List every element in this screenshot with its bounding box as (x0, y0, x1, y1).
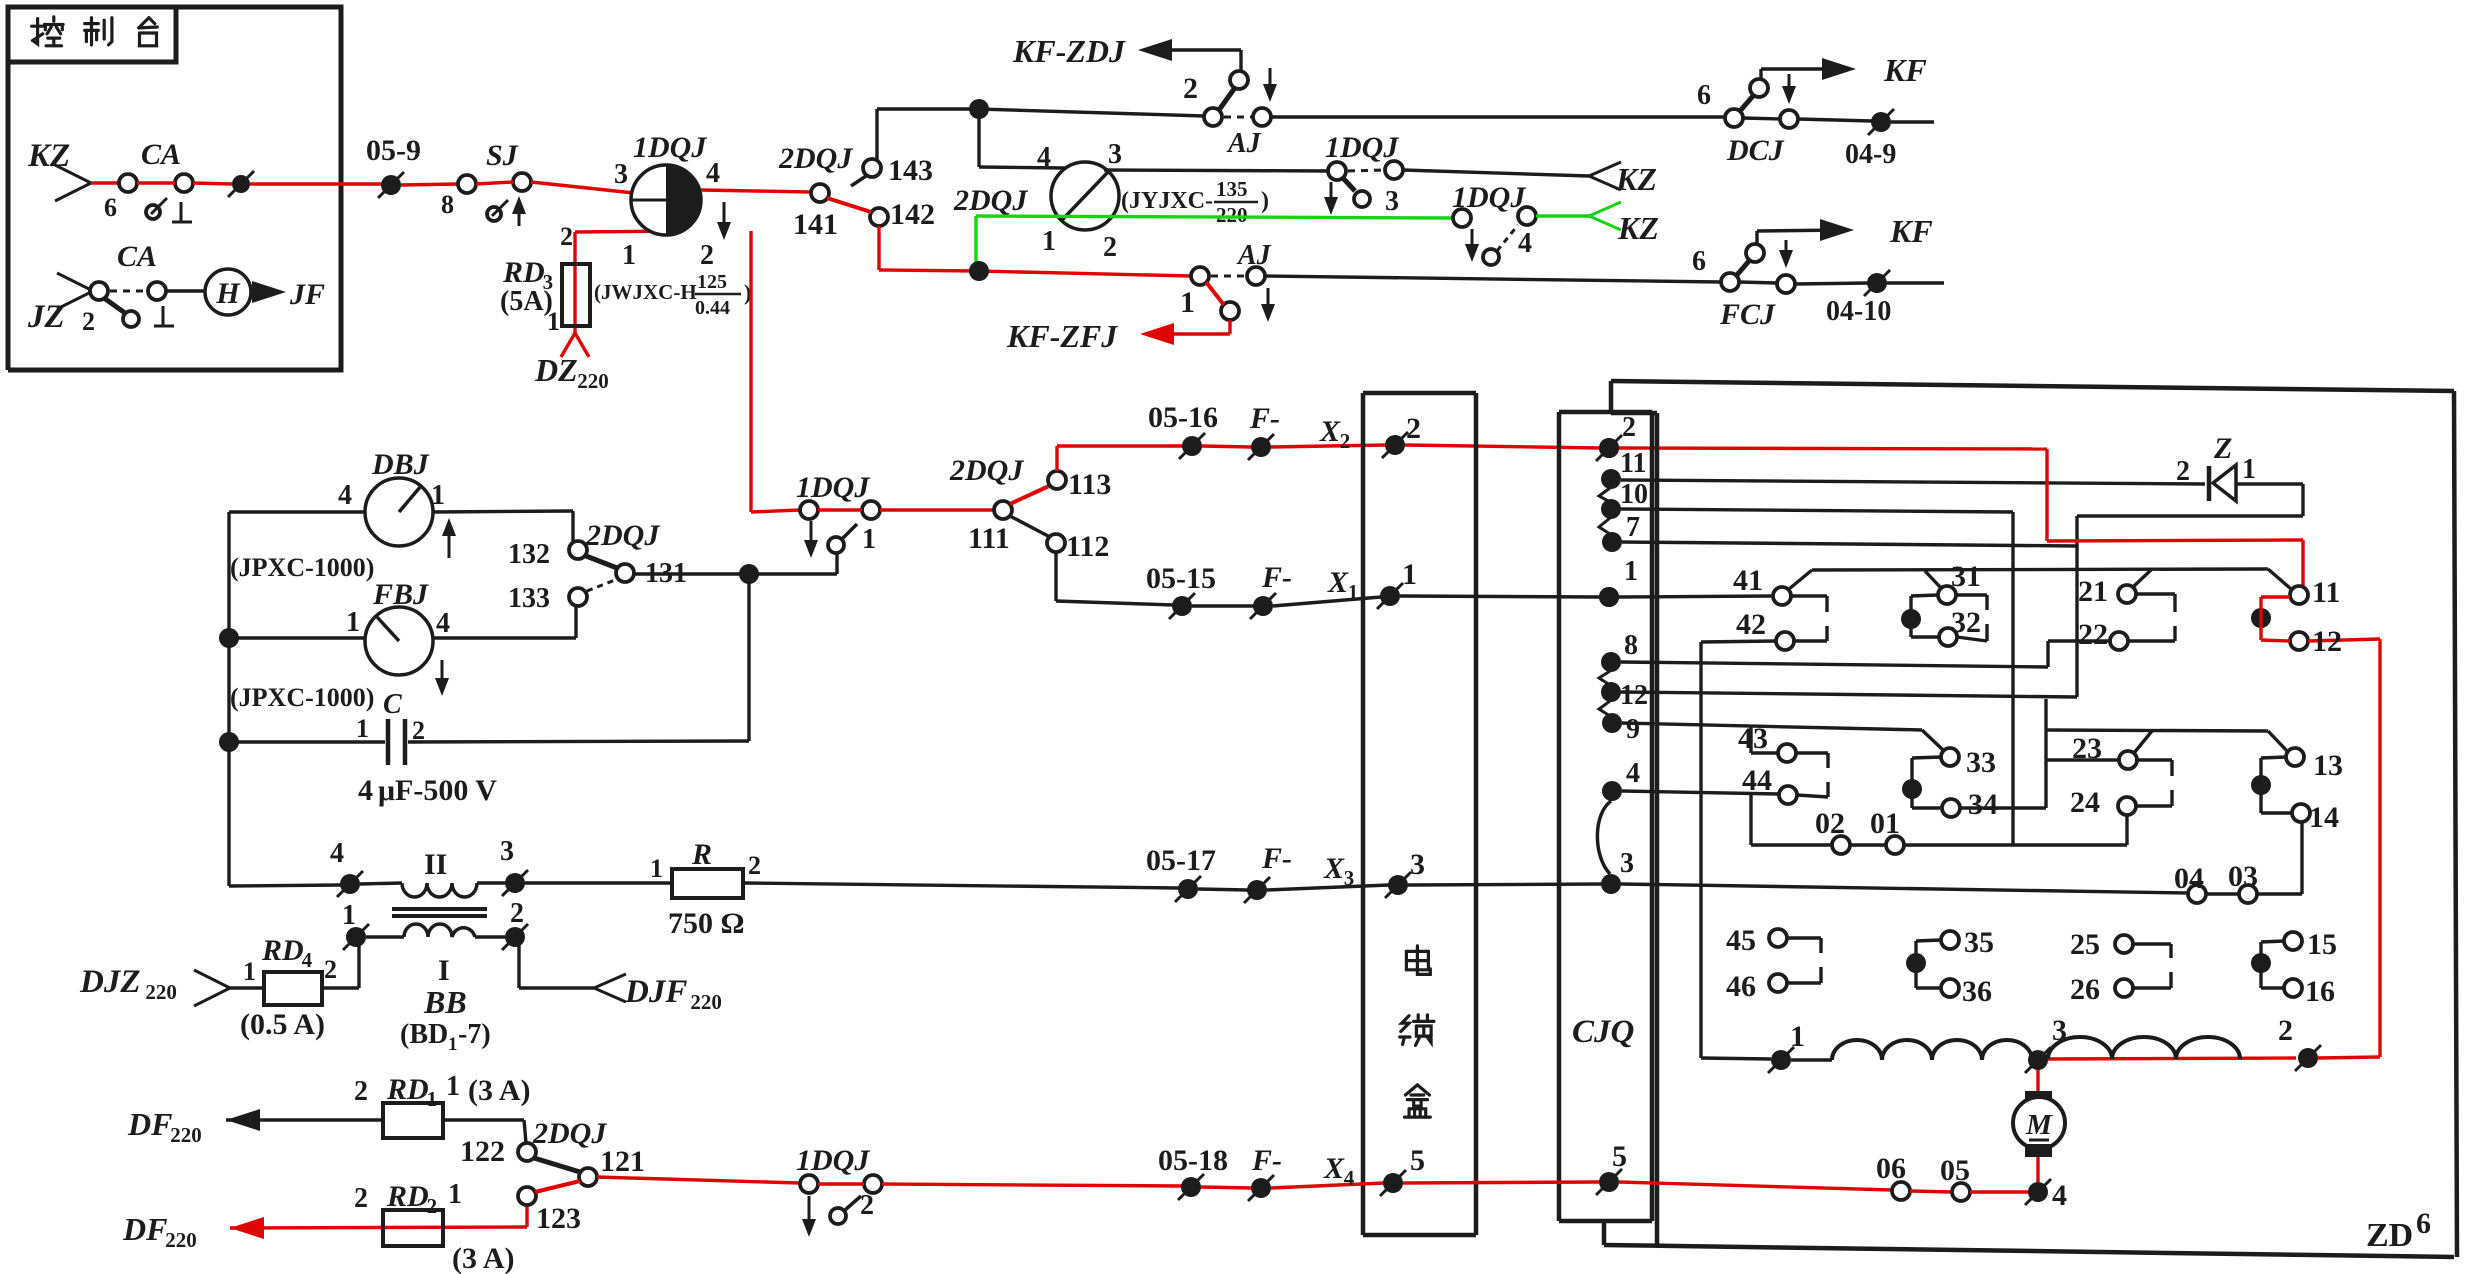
svg-text:4: 4 (436, 608, 450, 639)
svg-text:142: 142 (890, 198, 935, 231)
svg-text:26: 26 (2070, 973, 2100, 1006)
svg-text:DBJ: DBJ (371, 448, 430, 481)
svg-text:143: 143 (888, 154, 933, 187)
svg-text:2: 2 (1406, 412, 1421, 445)
svg-text:113: 113 (1068, 468, 1111, 501)
svg-text:2DQJ: 2DQJ (532, 1117, 607, 1150)
svg-text:1: 1 (1624, 556, 1638, 587)
svg-text:(5A): (5A) (500, 286, 553, 317)
svg-text:34: 34 (1968, 788, 1998, 821)
svg-text:F-: F- (1251, 1144, 1282, 1177)
svg-text:6: 6 (104, 193, 117, 222)
svg-text:1: 1 (2242, 454, 2256, 485)
svg-text:SJ: SJ (486, 139, 519, 172)
svg-text:2: 2 (82, 307, 95, 336)
svg-text:33: 33 (1966, 746, 1996, 779)
svg-text:121: 121 (600, 1145, 645, 1178)
svg-text:6: 6 (1692, 246, 1706, 277)
svg-text:32: 32 (1951, 606, 1981, 639)
svg-text:2DQJ: 2DQJ (585, 519, 660, 552)
svg-text:DZ: DZ (534, 352, 578, 388)
svg-text:X: X (1323, 852, 1345, 885)
svg-text:14: 14 (2309, 801, 2339, 834)
svg-text:F-: F- (1261, 842, 1292, 875)
svg-text:(JPXC-1000): (JPXC-1000) (230, 553, 374, 582)
svg-text:DJF: DJF (624, 974, 687, 1010)
svg-text:24: 24 (2070, 786, 2100, 819)
svg-text:122: 122 (460, 1135, 505, 1168)
svg-text:KF-ZDJ: KF-ZDJ (1012, 33, 1126, 69)
svg-text:BB: BB (423, 984, 467, 1020)
svg-text:8: 8 (441, 190, 454, 219)
svg-text:35: 35 (1964, 926, 1994, 959)
svg-text:2: 2 (860, 1190, 874, 1221)
svg-text:DJZ: DJZ (79, 964, 141, 1000)
svg-text:F-: F- (1249, 402, 1280, 435)
svg-text:1: 1 (1180, 286, 1195, 319)
svg-text:2: 2 (427, 1194, 438, 1218)
svg-text:45: 45 (1726, 924, 1756, 957)
svg-text:1: 1 (862, 524, 876, 555)
svg-text:(JPXC-1000): (JPXC-1000) (230, 683, 374, 712)
svg-text:3: 3 (1620, 848, 1634, 879)
svg-text:1DQJ: 1DQJ (633, 131, 707, 164)
svg-text:220: 220 (145, 980, 177, 1004)
svg-text:5: 5 (1410, 1144, 1425, 1177)
svg-text:3: 3 (1410, 848, 1425, 881)
svg-text:AJ: AJ (1226, 128, 1262, 159)
svg-text:(0.5 A): (0.5 A) (240, 1008, 325, 1041)
svg-text:2: 2 (2176, 456, 2190, 487)
svg-text:6: 6 (2416, 1207, 2431, 1240)
svg-text:I: I (438, 954, 450, 987)
svg-text:1: 1 (446, 1071, 460, 1102)
svg-text:2DQJ: 2DQJ (953, 184, 1028, 217)
svg-text:05-17: 05-17 (1146, 844, 1216, 877)
svg-text:(JWJXC-H: (JWJXC-H (594, 280, 697, 304)
svg-text:13: 13 (2313, 749, 2343, 782)
svg-text:KZ: KZ (1617, 210, 1659, 246)
svg-text:1: 1 (448, 1034, 458, 1055)
svg-text:112: 112 (1066, 530, 1109, 563)
svg-text:2DQJ: 2DQJ (778, 142, 853, 175)
svg-text:X: X (1327, 566, 1349, 599)
svg-text:RD: RD (502, 256, 545, 289)
svg-text:II: II (424, 848, 447, 881)
svg-text:2: 2 (1340, 429, 1351, 453)
svg-text:8: 8 (1624, 630, 1638, 661)
svg-text:46: 46 (1726, 970, 1756, 1003)
svg-text:2: 2 (510, 898, 524, 929)
svg-text:132: 132 (508, 539, 550, 570)
svg-text:H: H (215, 277, 241, 310)
svg-text:4: 4 (706, 158, 720, 189)
svg-text:AJ: AJ (1236, 240, 1272, 271)
svg-text:3: 3 (500, 836, 514, 867)
svg-text:05-15: 05-15 (1146, 562, 1216, 595)
svg-text:2: 2 (1103, 232, 1117, 263)
svg-text:1: 1 (1402, 558, 1417, 591)
svg-text:3: 3 (1344, 866, 1355, 890)
svg-text:25: 25 (2070, 928, 2100, 961)
svg-text:Z: Z (2213, 432, 2232, 465)
svg-text:05: 05 (1940, 1154, 1970, 1187)
svg-text:ZD: ZD (2366, 1217, 2413, 1254)
svg-text:CA: CA (141, 138, 181, 171)
svg-text:DF: DF (127, 1106, 172, 1142)
svg-text:RD: RD (261, 934, 304, 967)
svg-text:4: 4 (1037, 142, 1051, 173)
svg-text:(JYJXC-: (JYJXC- (1121, 188, 1213, 214)
svg-text:4: 4 (1626, 758, 1640, 789)
svg-text:1DQJ: 1DQJ (796, 1144, 870, 1177)
svg-text:M: M (2025, 1109, 2053, 1141)
svg-text:F-: F- (1261, 561, 1292, 594)
svg-text:4: 4 (338, 480, 352, 511)
svg-text:9: 9 (1626, 714, 1640, 745)
svg-text:133: 133 (508, 583, 550, 614)
svg-text:(BD: (BD (400, 1019, 448, 1050)
svg-text:43: 43 (1738, 722, 1768, 755)
svg-text:4: 4 (1344, 1166, 1355, 1190)
svg-text:1: 1 (342, 900, 356, 931)
svg-text:220: 220 (577, 369, 609, 393)
svg-text:220: 220 (165, 1228, 197, 1252)
svg-text:CA: CA (117, 240, 157, 273)
svg-text:1DQJ: 1DQJ (1452, 181, 1526, 214)
svg-text:2: 2 (560, 222, 573, 251)
svg-text:135: 135 (1216, 177, 1248, 201)
svg-text:2: 2 (354, 1076, 368, 1107)
svg-text:44: 44 (1742, 764, 1772, 797)
svg-text:3: 3 (1108, 139, 1122, 170)
svg-text:05-18: 05-18 (1158, 1144, 1228, 1177)
svg-text:KF: KF (1889, 213, 1933, 249)
svg-text:111: 111 (968, 522, 1010, 555)
svg-text:125: 125 (697, 271, 727, 293)
svg-text:220: 220 (690, 990, 722, 1014)
svg-text:1: 1 (1348, 580, 1359, 604)
svg-text:KZ: KZ (1615, 161, 1657, 197)
svg-text:1: 1 (427, 1087, 438, 1111)
svg-text:6: 6 (1697, 80, 1711, 111)
svg-text:01: 01 (1870, 807, 1900, 840)
svg-text:2: 2 (324, 955, 337, 984)
svg-text:12: 12 (1620, 680, 1648, 711)
svg-text:RD: RD (386, 1180, 429, 1213)
svg-text:23: 23 (2072, 732, 2102, 765)
svg-text:04: 04 (2174, 862, 2204, 895)
svg-text:2: 2 (748, 851, 761, 880)
svg-text:2: 2 (1183, 72, 1198, 105)
svg-text:04-10: 04-10 (1826, 296, 1891, 327)
svg-text:4: 4 (358, 774, 373, 807)
svg-text:FBJ: FBJ (372, 578, 429, 611)
svg-text:16: 16 (2305, 975, 2335, 1008)
svg-text:1DQJ: 1DQJ (1325, 131, 1399, 164)
svg-text:11: 11 (2312, 576, 2340, 609)
svg-text:22: 22 (2078, 618, 2108, 651)
svg-text:R: R (691, 838, 712, 871)
svg-text:DF: DF (122, 1211, 167, 1247)
svg-text:220: 220 (1216, 203, 1248, 227)
svg-text:41: 41 (1733, 564, 1763, 597)
svg-text:1: 1 (346, 607, 360, 638)
svg-text:KF: KF (1883, 52, 1927, 88)
svg-text:3: 3 (1385, 186, 1399, 217)
svg-text:05-16: 05-16 (1148, 401, 1218, 434)
svg-text:1: 1 (1790, 1020, 1805, 1053)
svg-text:4: 4 (330, 838, 344, 869)
svg-text:0.44: 0.44 (695, 297, 730, 319)
svg-text:220: 220 (170, 1123, 202, 1147)
svg-text:4: 4 (302, 948, 313, 972)
svg-text:1: 1 (1042, 226, 1056, 257)
svg-text:1: 1 (547, 307, 560, 336)
svg-text:4: 4 (1518, 228, 1532, 259)
svg-text:(3 A): (3 A) (468, 1074, 531, 1107)
svg-text:JZ: JZ (27, 299, 65, 335)
svg-text:2: 2 (2278, 1014, 2293, 1047)
svg-text:4: 4 (2052, 1179, 2067, 1212)
svg-text:1: 1 (650, 854, 663, 883)
svg-text:2: 2 (412, 716, 425, 745)
svg-text:JF: JF (289, 278, 325, 311)
svg-text:1DQJ: 1DQJ (796, 471, 870, 504)
svg-text:2DQJ: 2DQJ (949, 454, 1024, 487)
svg-text:(3 A): (3 A) (452, 1242, 515, 1274)
svg-text:1: 1 (243, 957, 256, 986)
svg-text:02: 02 (1815, 807, 1845, 840)
svg-text:03: 03 (2228, 860, 2258, 893)
svg-text:36: 36 (1962, 975, 1992, 1008)
svg-text:141: 141 (793, 208, 838, 241)
svg-text:CJQ: CJQ (1572, 1014, 1634, 1050)
svg-text:12: 12 (2312, 625, 2342, 658)
svg-text:X: X (1323, 1152, 1345, 1185)
svg-text:750 Ω: 750 Ω (668, 907, 745, 940)
svg-text:μF-500 V: μF-500 V (378, 774, 497, 807)
svg-text:1: 1 (622, 240, 636, 271)
svg-text:-7): -7) (458, 1019, 491, 1050)
svg-text:X: X (1319, 415, 1341, 448)
svg-text:7: 7 (1626, 512, 1640, 543)
svg-text:06: 06 (1876, 1152, 1906, 1185)
svg-text:123: 123 (536, 1202, 581, 1235)
svg-text:05-9: 05-9 (366, 134, 421, 167)
svg-text:3: 3 (614, 159, 628, 190)
svg-text:04-9: 04-9 (1845, 139, 1896, 170)
svg-text:42: 42 (1736, 608, 1766, 641)
svg-text:DCJ: DCJ (1726, 134, 1785, 167)
svg-text:): ) (1261, 188, 1269, 214)
svg-text:KF-ZFJ: KF-ZFJ (1006, 318, 1118, 354)
svg-text:FCJ: FCJ (1719, 298, 1776, 331)
svg-text:10: 10 (1620, 479, 1648, 510)
svg-text:15: 15 (2307, 928, 2337, 961)
svg-text:1: 1 (356, 714, 369, 743)
svg-text:5: 5 (1612, 1140, 1627, 1173)
svg-text:1: 1 (448, 1179, 462, 1210)
svg-text:31: 31 (1951, 560, 1981, 593)
svg-text:2: 2 (354, 1183, 368, 1214)
svg-text:2: 2 (700, 240, 714, 271)
svg-text:RD: RD (386, 1073, 429, 1106)
svg-text:21: 21 (2078, 575, 2108, 608)
svg-text:11: 11 (1620, 448, 1646, 479)
svg-text:1: 1 (431, 480, 445, 511)
svg-text:C: C (383, 689, 402, 720)
svg-text:2: 2 (1622, 412, 1636, 443)
